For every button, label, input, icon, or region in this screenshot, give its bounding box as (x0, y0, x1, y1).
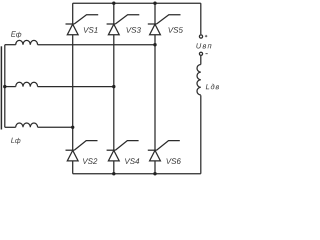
node phase 3 / column 1 (71, 126, 74, 129)
thyristor VS6 (148, 141, 180, 161)
thyristor VS3 (107, 15, 140, 35)
wire right output lower (200, 95, 202, 173)
label Uvp (196, 43, 211, 48)
node top rail / column 3 (153, 2, 156, 5)
terminal - (199, 52, 202, 55)
wire right between minus terminal and coil (200, 56, 202, 65)
label minus (206, 53, 208, 55)
node phase 1 / column 3 (153, 43, 156, 46)
inductor Lf phase 2 (16, 82, 38, 86)
wire column 2 upper (113, 3, 115, 24)
label Lf (11, 138, 20, 145)
wire phase 2 left segment (5, 86, 16, 88)
wire phase 1 left segment (5, 44, 16, 46)
inductor Ldv (197, 65, 201, 95)
thyristor VS2 (66, 141, 98, 161)
wire source outer line (0, 46, 2, 129)
node phase 2 / column 2 (112, 85, 115, 88)
node bottom rail / column 2 (112, 172, 115, 175)
wire column 3 middle (154, 35, 156, 151)
label VS2 (83, 158, 97, 164)
wire source bus vertical (4, 45, 6, 128)
label plus (205, 35, 207, 37)
label Ef (11, 31, 21, 38)
wire column 2 middle (113, 35, 115, 151)
wire right output upper (200, 3, 202, 34)
label VS3 (127, 27, 141, 33)
inductor Lf phase 3 (16, 123, 38, 127)
inductor Lf phase 1 (16, 40, 38, 44)
label VS4 (125, 158, 139, 164)
thyristor VS5 (148, 15, 181, 35)
thyristor VS4 (107, 141, 139, 161)
thyristor VS1 (66, 15, 99, 35)
wire phase 3 left segment (5, 126, 16, 128)
wire column 1 upper (72, 3, 74, 24)
label VS6 (167, 158, 181, 164)
label Ldv (206, 84, 219, 90)
node top rail / column 2 (112, 2, 115, 5)
node bottom rail / column 3 (153, 172, 156, 175)
wire column 2 lower (113, 161, 115, 174)
wire column 1 middle (72, 35, 74, 151)
wire column 1 lower (72, 161, 74, 174)
wire phase 2 right segment (38, 86, 114, 88)
wire column 3 lower (154, 161, 156, 174)
wire bottom rail (73, 173, 201, 175)
terminal + (199, 35, 202, 38)
wire column 3 upper (154, 3, 156, 24)
label VS1 (84, 27, 98, 33)
node source bus / phase 2 (3, 85, 6, 88)
wire phase 1 right segment (38, 44, 155, 46)
label VS5 (169, 27, 183, 33)
wire top rail (73, 2, 201, 4)
wire phase 3 right segment (38, 126, 73, 128)
